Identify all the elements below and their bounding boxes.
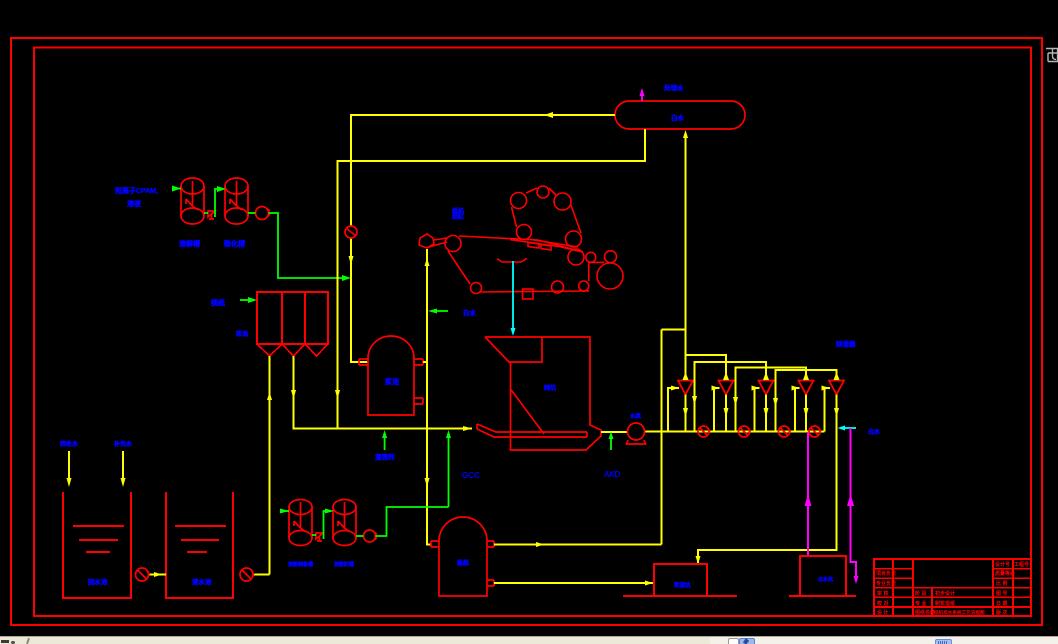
- wire yellow cleaner5 reject line to rejects pit: [698, 395, 837, 565]
- arrow up into cleaner5 top: [834, 372, 840, 380]
- arrow right into rejects pit: [645, 581, 653, 586]
- svg-text:专 业: 专 业: [915, 600, 926, 607]
- dome chest left nozzle: [359, 359, 368, 365]
- wire green tankA to valve to tankB: [312, 511, 327, 539]
- svg-text:回收水: 回收水: [60, 440, 79, 448]
- arrow up into stadium bottom: [683, 130, 688, 138]
- taskbar left tiny glyphs: [1, 640, 9, 643]
- svg-text:白水: 白水: [868, 428, 881, 436]
- cleaner cone 3: [759, 381, 774, 395]
- arrow down on cleaner4 reject: [804, 408, 809, 417]
- svg-text:GCC: GCC: [462, 471, 480, 480]
- wire yellow cleaner1 inlet stub: [668, 388, 679, 432]
- arrow into starch tank A: [280, 509, 289, 514]
- title block horizontal lines: [874, 568, 1031, 570]
- title block frame: [874, 559, 1031, 616]
- wire yellow chest leg1 down to broke pump: [269, 356, 271, 575]
- svg-text:网坑: 网坑: [544, 384, 556, 392]
- wire yellow inflow arrow tank1: [68, 451, 70, 479]
- wire yellow tank1 pump to tank2: [149, 574, 167, 576]
- tank open water tank 2: [166, 492, 233, 598]
- wire yellow header h3 cleaner4 accepts to pump2: [736, 368, 807, 432]
- arrow right on tray feed line: [463, 426, 472, 431]
- svg-text:纸机: 纸机: [452, 207, 464, 215]
- svg-text:淀粉制备槽: 淀粉制备槽: [288, 561, 313, 568]
- tank white water stadium tower: [615, 101, 745, 129]
- pump tank1 transfer pump: [136, 568, 149, 581]
- machine press roll top left: [511, 193, 527, 209]
- pit rejects pit 1: [654, 564, 707, 596]
- tank three-compartment stock chest: [257, 292, 328, 344]
- machine felt boxes: [528, 243, 551, 250]
- arrow CPAM line into yellow pipe: [342, 275, 351, 281]
- arrow down into tank2: [121, 478, 126, 487]
- wire yellow cleaner1 reject drop: [685, 395, 687, 432]
- arrow down on cleaner3 reject: [764, 408, 769, 417]
- cleaner cone 5: [829, 381, 844, 395]
- wire green feed arrow into tank T1: [172, 188, 181, 190]
- arrow on stadium left line pointing left: [544, 112, 553, 118]
- machine reel drum: [597, 263, 623, 289]
- svg-text:日 期: 日 期: [996, 600, 1007, 607]
- svg-text:损纸: 损纸: [211, 298, 225, 307]
- svg-text:设 计: 设 计: [877, 609, 888, 616]
- arrow down on cleaner2 reject: [724, 408, 729, 417]
- svg-text:溶解槽: 溶解槽: [179, 239, 200, 248]
- pump tank2 transfer pump: [240, 568, 253, 581]
- wire pit saveall tray: [477, 424, 587, 437]
- taskbar blue widget right: [935, 639, 952, 644]
- wire yellow header h1 cleaner2 accepts: [686, 355, 727, 379]
- wire yellow riser cleaner1 accepts up to stadium: [685, 137, 687, 375]
- tank starch storage tank B: [333, 500, 356, 546]
- arrow down on cleaner1 reject: [683, 408, 688, 417]
- svg-text:项目负责: 项目负责: [876, 570, 896, 577]
- wire yellow header h2 cleaner3 accepts to pump1: [695, 362, 767, 432]
- svg-text:浆池: 浆池: [235, 330, 248, 338]
- wire cyan machine drain to wire pit: [512, 261, 514, 330]
- wire green AKD dosing arrow: [610, 437, 612, 450]
- broke tank right upper nozzle: [487, 541, 494, 547]
- pump cleaner pump 3: [779, 426, 790, 437]
- arrow up into cleaner4 top: [803, 372, 809, 380]
- pump fan pump: [627, 423, 646, 444]
- pump P1 after CPAM tank2: [256, 207, 271, 220]
- wire magenta white water from pit2 up to cleaners: [807, 432, 809, 556]
- svg-text:比 例: 比 例: [996, 580, 1007, 587]
- wire yellow cleaner5 inlet stub: [825, 388, 830, 432]
- svg-text:浆渣坑: 浆渣坑: [673, 581, 691, 589]
- machine wire bottom run: [479, 291, 589, 292]
- ground line pit2: [789, 595, 856, 597]
- wire yellow inflow arrow tank2: [122, 451, 124, 479]
- machine paper run: [510, 240, 582, 252]
- machine guide roll small: [586, 252, 596, 262]
- svg-text:处理水: 处理水: [663, 83, 684, 92]
- arrow right pump1 to tank2: [154, 572, 162, 577]
- machine saveall pan: [523, 289, 534, 299]
- machine press roll top center: [537, 186, 549, 198]
- wire yellow stadium bottom to second downcomer: [338, 129, 646, 428]
- machine wire top run: [459, 236, 583, 252]
- machine wire return rolls: [471, 283, 482, 294]
- machine wire right side: [588, 262, 590, 281]
- taskbar strip at bottom: [0, 636, 1058, 644]
- svg-text:专业负责: 专业负责: [876, 580, 896, 587]
- wire yellow pump line junction to riser: [662, 329, 686, 331]
- wire yellow pit outlet to fan pump: [601, 431, 627, 433]
- wire cyan dilution water into cleaner line: [843, 427, 856, 429]
- arrow up into cleaner1 top: [683, 372, 689, 380]
- wire yellow dome right nozzle riser up to headbox: [426, 249, 428, 362]
- arrow down on cleaner5 reject: [834, 408, 839, 417]
- wire yellow fan pump discharge: [645, 431, 825, 433]
- machine press roll bottom: [566, 231, 582, 247]
- wire green tankB to starch pump: [356, 535, 364, 537]
- machine suction trough: [497, 259, 527, 262]
- arrow right into cleaner3 inlet: [752, 386, 760, 391]
- arrow down on broke downcomer: [425, 478, 430, 487]
- wire yellow riser from broke dome line up: [661, 330, 663, 545]
- arrow into T1: [172, 186, 181, 192]
- machine couch roll: [568, 249, 584, 265]
- arrow up on magenta line 2: [847, 494, 854, 506]
- svg-text:AKD: AKD: [604, 470, 621, 479]
- svg-text:白水坑: 白水坑: [818, 576, 833, 583]
- arrow down on left downcomer x351: [349, 256, 354, 265]
- clipped character 西 at right edge: [1046, 49, 1058, 62]
- wire pit internal diagonal: [511, 389, 545, 434]
- wire yellow cleaner4 reject drop: [805, 395, 807, 432]
- wire green tank T1 to valve to tank T2: [204, 189, 219, 217]
- svg-text:淀粉贮槽: 淀粉贮槽: [334, 561, 354, 568]
- dome chest right upper nozzle: [414, 359, 423, 365]
- svg-text:浆池: 浆池: [385, 377, 399, 386]
- broke tank right lower nozzle: [487, 580, 494, 586]
- tank starch dissolving tank A: [289, 500, 312, 546]
- arrow down on magenta stub: [854, 576, 859, 584]
- svg-text:质量等级: 质量等级: [995, 570, 1015, 577]
- wire magenta white water from pit2 right side: [851, 428, 857, 578]
- wire green feed arrow into starch tank A: [280, 510, 289, 512]
- wire green feed arrow into chest: [240, 299, 250, 301]
- svg-text:审 核: 审 核: [877, 590, 888, 597]
- arrow down on header h2 leg: [692, 396, 697, 405]
- wire green tank T2 to pump P1: [248, 212, 256, 214]
- arrow down into tank1: [67, 478, 72, 487]
- wire green starch pump to GCC riser: [376, 507, 449, 536]
- dome chest right lower nozzle: [414, 398, 423, 404]
- svg-text:阶 段: 阶 段: [915, 590, 926, 597]
- svg-text:阳离子CPAM,: 阳离子CPAM,: [115, 186, 158, 195]
- cleaner cone 2: [719, 381, 734, 395]
- arrow up on headbox riser: [425, 258, 430, 266]
- arrow down on header h3 leg: [733, 397, 738, 406]
- arrow right into cleaner4 inlet: [792, 386, 800, 391]
- pump starch pump: [364, 530, 378, 542]
- tank1 liquid level lines: [73, 526, 124, 552]
- tank2 liquid level lines: [175, 526, 226, 552]
- pump cleaner pump 4: [809, 426, 820, 437]
- wire magenta vent line from stadium top: [641, 95, 643, 101]
- wire yellow cleaner4 inlet stub: [795, 388, 800, 432]
- svg-text:水泵: 水泵: [630, 412, 642, 420]
- svg-text:白水: 白水: [463, 308, 477, 317]
- arrow up into cleaner3 top: [763, 372, 769, 380]
- pump cleaner pump 2: [739, 426, 750, 437]
- taskbar small white button: [728, 638, 739, 644]
- machine line under calender: [589, 261, 604, 263]
- arrow up on chest leg1: [267, 392, 272, 400]
- machine press roll top right: [554, 193, 571, 210]
- arrow down into rejects pit: [696, 556, 701, 564]
- valve between starch tanks: [316, 533, 323, 541]
- pit white water pit 2: [800, 556, 846, 596]
- paper machine headbox: [419, 234, 447, 248]
- svg-text:烘缸: 烘缸: [452, 213, 464, 221]
- svg-text:工程号: 工程号: [1014, 561, 1029, 568]
- machine wire loop left side: [448, 251, 470, 284]
- svg-text:溶液: 溶液: [127, 199, 142, 208]
- wire green GCC dosing into tray feed: [448, 436, 450, 507]
- taskbar blue program button: [739, 638, 755, 644]
- wire yellow chest leg2 down then right to saveall tray: [294, 356, 473, 429]
- wire yellow cleaner2 inlet stub: [714, 388, 720, 432]
- wire yellow tank2 pump to chest riser: [253, 574, 270, 576]
- arrow down on header h4 leg: [773, 398, 778, 407]
- svg-text:校 对: 校 对: [877, 600, 888, 607]
- wire yellow stadium left outlet to dome tank left nozzle: [351, 115, 615, 226]
- cleaner cone 1: [678, 381, 693, 395]
- wire yellow cleaner2 reject drop: [725, 395, 727, 432]
- svg-text:纸机浆水系统工艺流程图: 纸机浆水系统工艺流程图: [934, 609, 985, 616]
- svg-text:版 次: 版 次: [996, 609, 1007, 616]
- pump cleaner pump 1: [698, 426, 709, 437]
- tank wire pit body: [485, 337, 601, 450]
- broke tank left nozzle: [431, 541, 439, 547]
- machine press felt loop: [512, 188, 582, 247]
- chest hopper bottoms: [257, 344, 328, 356]
- wire green white-water injection into riser: [434, 310, 448, 312]
- wire yellow cleaner3 inlet stub: [755, 388, 760, 432]
- svg-text:湿强剂: 湿强剂: [375, 452, 395, 461]
- ground line pit1: [623, 595, 737, 597]
- svg-text:制浆造纸: 制浆造纸: [935, 600, 955, 607]
- title block vertical lines: [893, 559, 1013, 616]
- wire yellow cleaner3 reject drop: [765, 395, 767, 432]
- tank dome machine chest: [368, 336, 414, 415]
- arrow down on chest leg2: [291, 390, 296, 399]
- svg-text:设计号: 设计号: [995, 561, 1010, 568]
- svg-text:清水池: 清水池: [192, 577, 212, 586]
- tank broke dome tank: [439, 517, 487, 596]
- svg-text:熟化槽: 熟化槽: [224, 239, 245, 248]
- svg-text:初步设计: 初步设计: [935, 590, 955, 597]
- arrow right into cleaner1 inlet: [671, 386, 679, 391]
- valve V1 between CPAM tanks: [208, 211, 215, 219]
- svg-text:除渣器: 除渣器: [836, 339, 856, 348]
- tank T2 CPAM maturing tank: [225, 178, 248, 224]
- arrow up on magenta line 1: [805, 494, 812, 506]
- arrow right into cleaner5 inlet: [822, 386, 830, 391]
- svg-text:补充水: 补充水: [113, 440, 133, 448]
- wire green CPAM dosing line pump P1 to yellow main: [269, 213, 345, 278]
- machine calender roll: [605, 251, 617, 263]
- wire yellow broke tank upper outlet to riser: [494, 544, 662, 546]
- wire green wet strength agent arrow: [384, 436, 386, 450]
- svg-text:白水: 白水: [671, 113, 685, 122]
- wire yellow dome right nozzle down to broke dome tank: [423, 362, 431, 545]
- arrow into starch tank B: [325, 509, 334, 514]
- svg-text:损纸: 损纸: [457, 559, 469, 567]
- svg-text:图纸名称: 图纸名称: [915, 609, 935, 616]
- arrow down on downcomer x337: [335, 390, 340, 399]
- valve red on white water line: [345, 226, 357, 238]
- arrow right on broke upper line: [536, 542, 544, 547]
- svg-text:回水池: 回水池: [88, 577, 108, 586]
- arrow up into cleaner2 top: [723, 372, 729, 380]
- tank T1 CPAM dissolving tank: [181, 178, 204, 224]
- wire pit inlet chute: [485, 337, 542, 362]
- arrow right into cleaner2 inlet: [712, 386, 720, 391]
- cleaner cone 4: [799, 381, 814, 395]
- wire yellow broke tank lower outlet to rejects pit: [494, 582, 654, 584]
- machine press roll mid left: [517, 225, 532, 240]
- svg-text:图 号: 图 号: [996, 590, 1007, 597]
- arrow into T2: [217, 186, 226, 192]
- machine breast roll: [445, 236, 461, 252]
- wire yellow header h4 cleaner5 accepts to pump3: [776, 370, 837, 432]
- tank open water tank 1: [63, 492, 131, 598]
